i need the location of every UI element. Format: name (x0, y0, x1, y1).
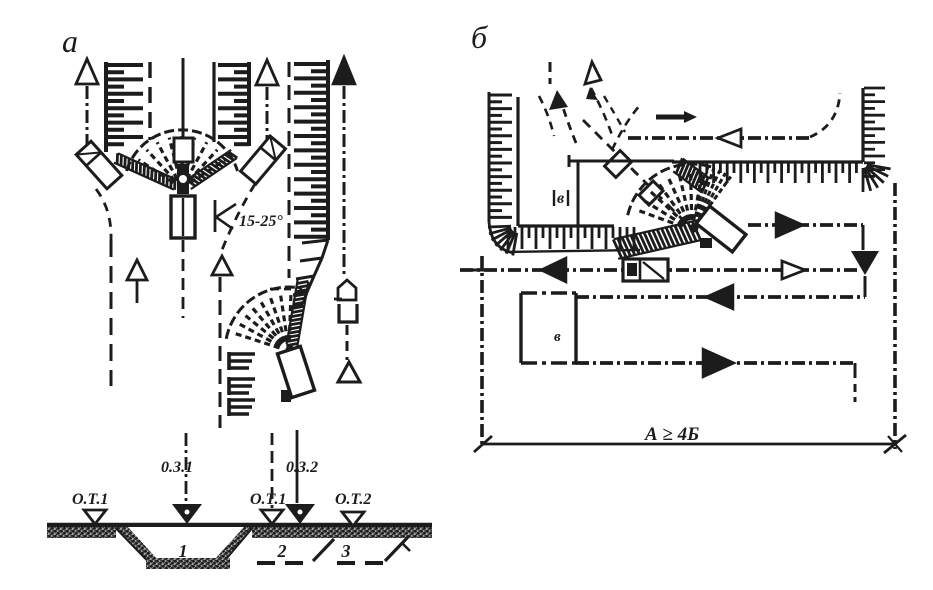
truck path line x=111 (110, 240, 113, 386)
ground line (47, 523, 432, 527)
entry open triangle (585, 62, 601, 84)
fan1 arc (127, 130, 238, 171)
dug edge ticks x=229 (227, 352, 231, 370)
trench edge hatch S1 (x=106) (104, 62, 108, 152)
row5 dashdot (576, 295, 865, 299)
excavator axis line x=183 top (182, 58, 185, 137)
row2 turn arc (810, 93, 840, 137)
fan1 left edge band (118, 153, 178, 180)
entry curve D (612, 104, 641, 150)
truck T2 path (222, 184, 255, 250)
line x=297 (296, 430, 299, 503)
line x=272 (271, 433, 274, 508)
marker glyph (pentagon) x=347 (338, 280, 356, 300)
dashed line x=289 (288, 62, 291, 278)
trench right slope hatch (214, 527, 252, 560)
ground hatch left (47, 527, 116, 538)
excavation edge hatch left (b) (488, 92, 491, 222)
fan1 radial spokes (138, 160, 173, 183)
svg-text:а: а (62, 23, 78, 59)
excavator1 body (171, 196, 195, 238)
axis arrow A2 (open, x=267) (256, 60, 278, 85)
row6 dashdot (576, 361, 855, 365)
svg-text:в: в (554, 329, 561, 345)
svg-text:б: б (471, 19, 488, 55)
row4 dashdot (460, 268, 860, 272)
excavatorB body (696, 206, 746, 252)
svg-text:0.З.1: 0.З.1 (161, 459, 193, 476)
svg-text:О.Т.2: О.Т.2 (335, 491, 371, 508)
fanB pivot boom (692, 221, 706, 228)
line x=187 (185, 433, 188, 503)
elbow dash (270, 288, 291, 291)
ramp hatch band (b) (614, 220, 698, 239)
dimension tick left (474, 436, 492, 452)
benchmark open tri mid (261, 510, 283, 524)
fan1 right edge band (191, 158, 237, 189)
excavator2 body (277, 346, 314, 397)
fan2 radial spokes (234, 333, 280, 348)
axis arrow A3 (filled, x=344) (333, 57, 355, 84)
truck T1 (left) (76, 141, 122, 189)
fanB NE dense band (683, 159, 710, 179)
benchmark filled tri 031 (172, 504, 202, 524)
marker glyph (bracket) x=347 (339, 304, 357, 322)
benchmark open tri right (342, 512, 364, 526)
row6 hook (854, 363, 857, 378)
trench left slope hatch (116, 527, 158, 560)
excavation inner contour left (b) (516, 97, 519, 226)
exit arrow curve (561, 101, 576, 143)
row3 filled right arrow (776, 213, 803, 237)
excavator1 axis lower (182, 240, 185, 318)
trench edge hatch S2 (x=249) (247, 62, 251, 146)
truck path line x=220 (219, 277, 222, 428)
trench outline (116, 527, 252, 560)
row4 open right arrow (782, 261, 805, 279)
dimension line (482, 443, 897, 446)
excavation bottom outer (b) (505, 250, 640, 252)
excavation bottom hatch (b) (507, 227, 510, 249)
row5 filled left arrow (706, 285, 733, 309)
corner hatch topright (b) (867, 165, 891, 169)
down arrow x=865 (851, 251, 879, 275)
angle mark (216, 204, 236, 229)
axis arrow A1 (open, x=87) (76, 59, 98, 84)
connector x=865 (864, 276, 867, 297)
entry curve B (539, 96, 554, 136)
row2 open left arrow (718, 129, 741, 147)
direction arrow x=222 (212, 256, 232, 275)
svg-text:1: 1 (179, 541, 188, 561)
row3 dashdot (748, 223, 863, 227)
division line x=578 (577, 161, 580, 226)
boundary dashdot left x=482 (480, 256, 484, 447)
truck T3 body (b) (639, 181, 663, 205)
ground hatch right (252, 527, 432, 538)
truck T2 (right) (241, 136, 286, 184)
marker dash x=347 (346, 325, 349, 360)
boundary dashdot right x=895 (893, 183, 897, 449)
marker open triangle x=349 (338, 362, 360, 382)
row6 filled right arrow (703, 349, 734, 377)
excavation inner contour topright (b) (861, 88, 864, 162)
row4 filled left arrow (541, 258, 566, 282)
axis line x=214 (212, 62, 215, 142)
svg-text:3: 3 (341, 541, 351, 561)
trench bottom hatch (146, 558, 230, 569)
row3 elbow down (862, 225, 865, 250)
entry curve C (591, 88, 612, 135)
truck T3 cab (b) (605, 151, 632, 178)
trench edge hatch S3 (x=328, curving) (326, 60, 330, 240)
block rectangle B (519, 293, 522, 363)
svg-text:О.Т.1: О.Т.1 (72, 491, 108, 508)
zone slash 1 (313, 539, 334, 561)
excavator1 cab (174, 138, 193, 162)
division line y=161 (569, 160, 674, 163)
dimension tick right (884, 435, 906, 453)
svg-text:0.З.2: 0.З.2 (286, 459, 318, 476)
zone dash line (257, 561, 312, 565)
fan2 right edge band (297, 282, 308, 346)
svg-text:А ≥ 4Б: А ≥ 4Б (644, 424, 699, 445)
excavation edge hatch right (b) (864, 87, 885, 90)
fan2 pivot boom (289, 345, 297, 362)
svg-text:О.Т.1: О.Т.1 (250, 491, 286, 508)
row2 dashdot (628, 136, 810, 140)
svg-text:2: 2 (277, 541, 287, 561)
truck T1 path (96, 189, 111, 240)
direction arrow x=137 (127, 260, 147, 280)
row1 solid arrow (656, 115, 686, 120)
fanB arc (628, 164, 712, 215)
svg-text:15-25°: 15-25° (239, 213, 283, 230)
excavator1 pivot (177, 164, 189, 194)
benchmark filled tri 032 (285, 504, 315, 524)
axis dashed line x=150 (148, 62, 151, 140)
benchmark open tri left (84, 510, 106, 524)
zone slash 2 (385, 537, 408, 561)
ramp axis (b) (583, 120, 693, 230)
entry dash x=550 (549, 62, 552, 84)
row4 truck box (623, 259, 668, 281)
fanB spokes (636, 210, 683, 227)
fan2 arc (226, 287, 302, 339)
excavation bottom hatch topright (b) (699, 163, 702, 183)
svg-text:в: в (557, 190, 564, 207)
